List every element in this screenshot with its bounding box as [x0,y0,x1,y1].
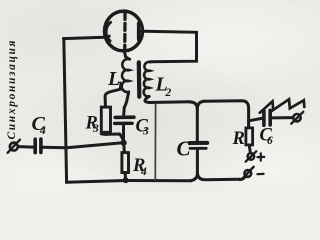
svg-text:3: 3 [142,126,149,138]
svg-text:Синхронизация: Синхронизация [6,40,18,139]
svg-text:6: 6 [267,135,273,147]
svg-text:3: 3 [92,123,99,135]
svg-text:4: 4 [39,125,46,137]
svg-text:R: R [232,129,245,149]
svg-text:2: 2 [165,87,172,99]
svg-text:C: C [177,137,192,161]
svg-text:1: 1 [117,80,123,92]
svg-text:4: 4 [140,166,147,178]
